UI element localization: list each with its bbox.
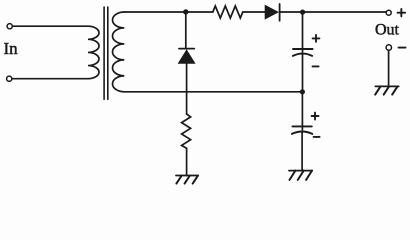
- ground G1: [176, 176, 198, 184]
- ground G3: [375, 86, 399, 94]
- ground G2: [289, 171, 312, 180]
- wire In bottom: [12, 78, 88, 80]
- label minus C1: [313, 65, 319, 67]
- label minus Out: [399, 47, 406, 49]
- capacitor C2: [292, 126, 312, 133]
- wire D1 to R2: [186, 63, 188, 114]
- resistor R1: [213, 6, 243, 18]
- wire Out minus to ground: [388, 50, 390, 86]
- label plus C1: [313, 35, 320, 42]
- wire J2 to C1: [302, 12, 304, 52]
- capacitor C1: [293, 49, 313, 56]
- wire C1 to J3: [302, 55, 304, 92]
- diode D1: [179, 49, 195, 64]
- node J3: [300, 89, 305, 94]
- node J2: [300, 10, 305, 15]
- wire J3 to C2: [301, 92, 303, 130]
- terminal In bottom: [7, 76, 12, 81]
- wire J1 to D1: [185, 12, 187, 49]
- wire top rail left: [124, 11, 213, 13]
- terminal Out minus: [386, 45, 391, 50]
- resistor R2: [182, 114, 191, 148]
- wire R2 to ground: [186, 148, 188, 175]
- terminal In top: [7, 24, 12, 29]
- diode D2: [265, 4, 279, 21]
- transformer T1 secondary winding: [113, 12, 125, 92]
- label minus C2: [314, 136, 320, 138]
- label plus Out: [398, 9, 406, 16]
- wire R1 to D2: [243, 11, 265, 13]
- label plus C2: [312, 113, 319, 120]
- wire In top: [12, 25, 88, 27]
- svg-text:Out: Out: [375, 22, 400, 39]
- node J1: [183, 9, 188, 14]
- wire bottom rail: [124, 91, 302, 93]
- wire C2 to ground: [301, 132, 303, 170]
- transformer T1 primary winding: [88, 26, 99, 78]
- wire D2 to Out+: [280, 11, 387, 13]
- terminal Out plus: [386, 10, 391, 15]
- transformer T1 core: [104, 7, 108, 99]
- svg-text:In: In: [4, 39, 19, 58]
